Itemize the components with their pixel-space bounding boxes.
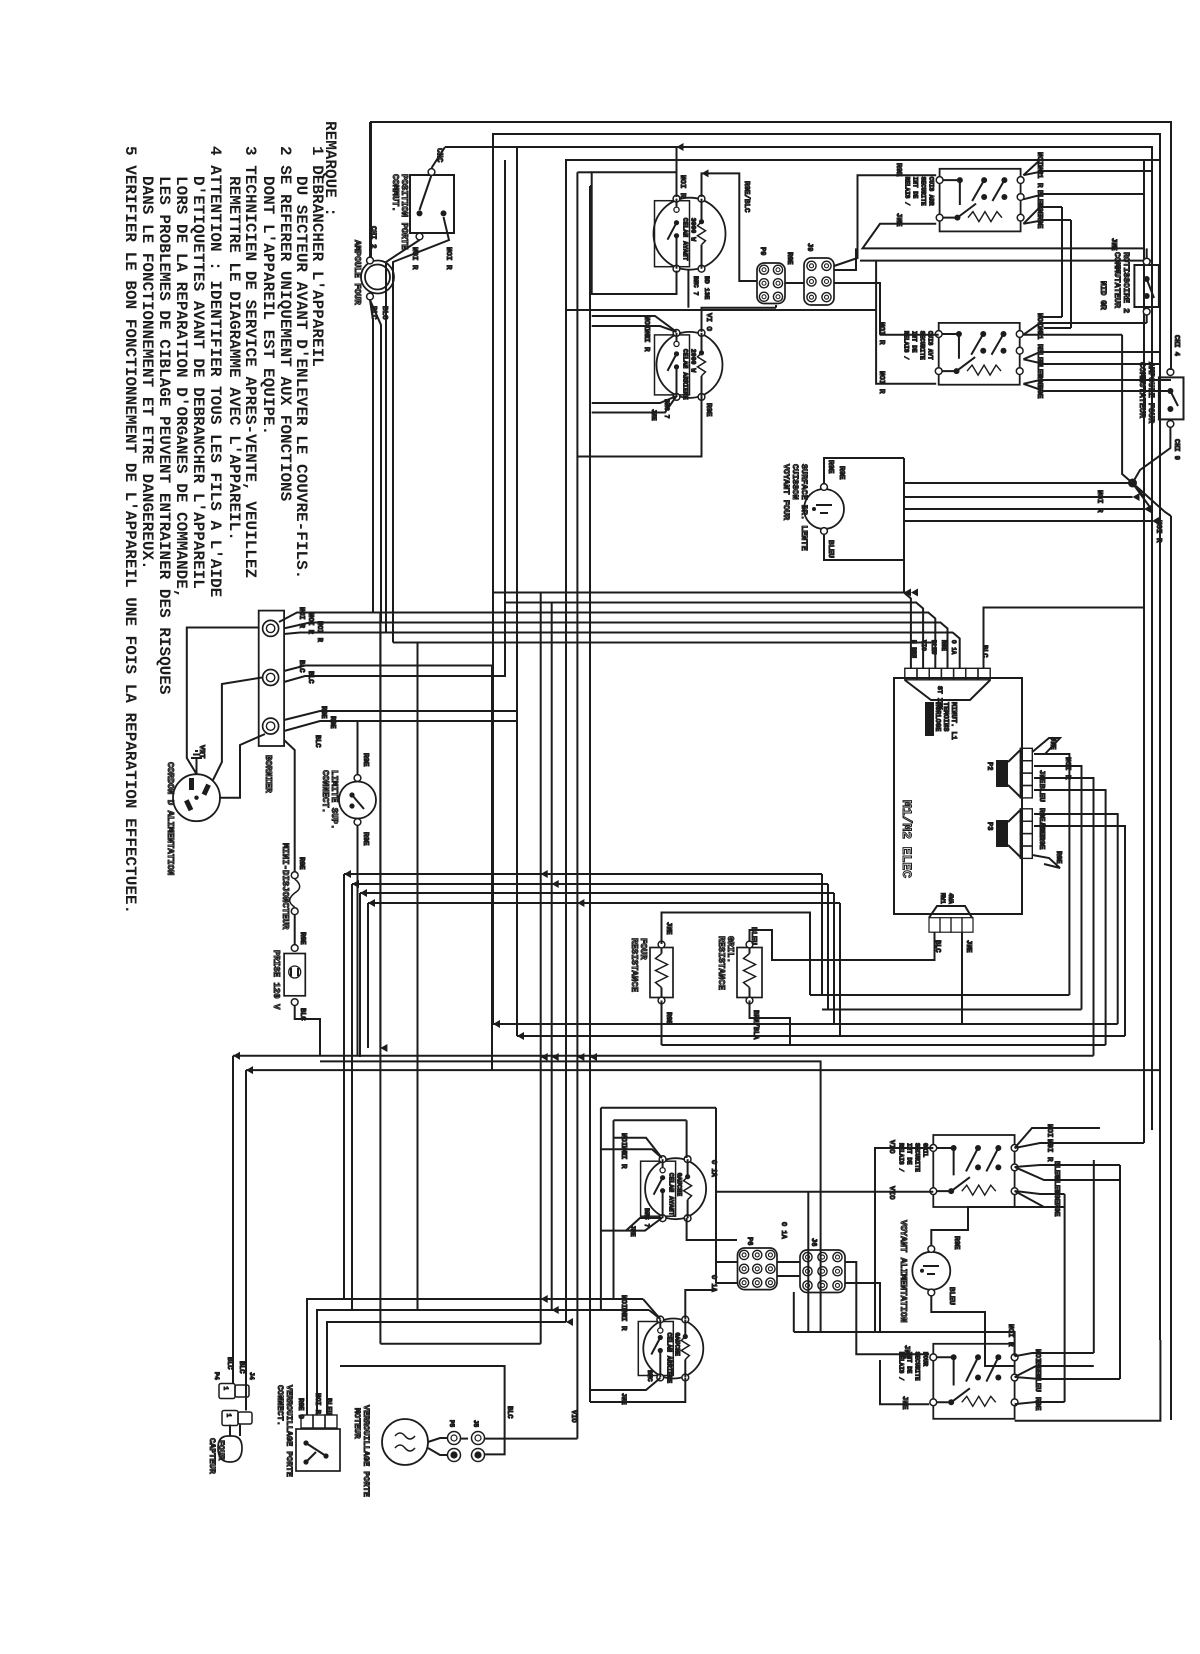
svg-text:MINUT. L1: MINUT. L1 (949, 702, 957, 740)
svg-text:FOUR: FOUR (216, 1440, 226, 1461)
svg-text:BRN/BLA: BRN/BLA (751, 1010, 759, 1040)
svg-text:RESISTANCE: RESISTANCE (629, 938, 639, 993)
svg-text:VOYANT ALIMENTATION: VOYANT ALIMENTATION (898, 1220, 908, 1323)
svg-text:DANS LE FONCTIONNEMENT ET ETRE: DANS LE FONCTIONNEMENT ET ETRE DANGEREUX… (138, 176, 156, 570)
svg-text:RGE: RGE (298, 932, 306, 945)
svg-text:J6: J6 (809, 1238, 817, 1246)
svg-text:JNE: JNE (664, 922, 672, 935)
svg-text:P3: P3 (985, 822, 993, 830)
svg-text:3000 W: 3000 W (690, 218, 697, 242)
svg-text:P5: P5 (448, 1420, 455, 1428)
svg-text:NOI R: NOI R (619, 1308, 627, 1331)
svg-text:BNC: BNC (646, 1370, 653, 1382)
svg-text:RGE: RGE (1052, 1190, 1060, 1204)
svg-text:JNE: JNE (650, 409, 657, 421)
svg-text:RGE: RGE (1054, 851, 1062, 864)
svg-text:MOTEUR: MOTEUR (352, 1408, 362, 1440)
svg-text:BLC: BLC (297, 660, 305, 673)
svg-text:COMMUTATEUR: COMMUTATEUR (1137, 362, 1147, 419)
svg-text:NO1 R: NO1 R (1035, 326, 1043, 349)
svg-text:VIO: VIO (569, 1410, 577, 1423)
svg-text:JNE: JNE (620, 1393, 627, 1405)
svg-text:5 VERIFIER LE BON FONCTIONNEM: 5 VERIFIER LE BON FONCTIONNEMENT DE L'AP… (121, 146, 139, 914)
svg-text:4 ATTENTION : IDENTIFIER TOUS: 4 ATTENTION : IDENTIFIER TOUS LES FILS A… (206, 146, 224, 597)
svg-text:BLC: BLC (313, 735, 321, 748)
svg-text:JNE: JNE (900, 1396, 908, 1410)
svg-text:RGE: RGE (826, 460, 834, 474)
svg-text:BLEU: BLEU (947, 1287, 955, 1306)
svg-text:P2: P2 (985, 762, 993, 770)
svg-text:COMMUTATEUR: COMMUTATEUR (1112, 252, 1122, 309)
svg-text:LORS DE LA REPARATION D'ORGANE: LORS DE LA REPARATION D'ORGANES DE COMMA… (172, 176, 190, 598)
svg-text:CHI 9: CHI 9 (1172, 439, 1180, 460)
svg-text:RGE: RGE (319, 706, 327, 719)
svg-text:RGE: RGE (704, 403, 712, 417)
svg-text:2 SE REFERER UNIQUEMENT AUX F: 2 SE REFERER UNIQUEMENT AUX FONCTIONS (276, 146, 294, 502)
svg-text:RGE: RGE (837, 466, 845, 480)
svg-text:NOI R: NOI R (315, 621, 323, 643)
svg-text:AMPOULE FOUR: AMPOULE FOUR (352, 240, 362, 305)
svg-text:ROTISSOIRE 2: ROTISSOIRE 2 (1121, 252, 1131, 313)
svg-text:M1/M2 ELEC: M1/M2 ELEC (899, 800, 914, 878)
svg-text:RGE: RGE (297, 857, 305, 870)
svg-text:CELAN ARRIERE: CELAN ARRIERE (682, 349, 689, 400)
svg-text:JNE: JNE (902, 1345, 910, 1359)
svg-text:NOI R: NOI R (1006, 1324, 1014, 1347)
svg-text:RGE: RGE (361, 753, 369, 767)
svg-text:GRIL: GRIL (921, 1143, 928, 1158)
svg-text:1: 1 (222, 1387, 229, 1391)
svg-text:POSITION PORTE: POSITION PORTE (399, 174, 409, 250)
svg-text:O 1A: O 1A (950, 640, 957, 655)
svg-text:RGE: RGE (1035, 385, 1043, 399)
svg-text:GRIL.: GRIL. (725, 936, 735, 963)
svg-text:BLEU: BLEU (826, 540, 834, 559)
svg-text:REMETTRE LE DIAGRAMME AVEC L'A: REMETTRE LE DIAGRAMME AVEC L'APPAREIL. (225, 176, 243, 541)
svg-text:INT DE: INT DE (905, 1143, 912, 1165)
svg-text:1: 1 (225, 1414, 232, 1418)
svg-text:VERROUILLAGE PORTE: VERROUILLAGE PORTE (361, 1405, 371, 1497)
svg-text:NOI R: NOI R (306, 613, 314, 635)
svg-text:J9: J9 (805, 243, 813, 251)
svg-text:BNC 7: BNC 7 (663, 399, 670, 419)
svg-text:NOI R: NOI R (877, 322, 885, 345)
svg-text:BD 13E: BD 13E (703, 276, 710, 300)
svg-text:NO1 R: NO1 R (1035, 165, 1043, 188)
svg-text:BLEU: BLEU (1037, 784, 1045, 803)
svg-text:RGE: RGE (1037, 836, 1045, 850)
svg-text:NID GR: NID GR (1098, 281, 1107, 310)
svg-text:CORDON D ALIMENTATION: CORDON D ALIMENTATION (165, 762, 175, 875)
svg-text:FOUR: FOUR (921, 1352, 928, 1367)
svg-text:P9: P9 (758, 247, 766, 255)
svg-text:BLC: BLC (505, 1406, 513, 1419)
svg-text:JNE: JNE (1109, 238, 1117, 251)
svg-text:RGE: RGE (952, 1236, 960, 1250)
svg-text:D'ETIQUETTES AVANT DE DEBRANCH: D'ETIQUETTES AVANT DE DEBRANCHER L'APPAR… (189, 176, 207, 589)
svg-text:CELAN ARRIERE: CELAN ARRIERE (665, 1333, 672, 1384)
svg-text:CONNECT.: CONNECT. (275, 1385, 285, 1426)
svg-text:O 1A: O 1A (779, 1222, 787, 1240)
svg-text:GAUCHE: GAUCHE (676, 1173, 683, 1197)
svg-text:GAUCHE: GAUCHE (673, 1333, 680, 1357)
svg-text:BLEU: BLEU (749, 927, 757, 946)
svg-text:NOI R: NOI R (642, 329, 650, 352)
svg-text:CELAN AVANT: CELAN AVANT (682, 218, 689, 261)
svg-text:LIMITE SUP.: LIMITE SUP. (329, 770, 339, 829)
svg-text:DONT L'APPAREIL EST EQUIPE.: DONT L'APPAREIL EST EQUIPE. (259, 176, 277, 435)
svg-text:CONNECT.: CONNECT. (320, 770, 330, 813)
svg-text:INT DE: INT DE (912, 177, 919, 199)
svg-text:JNE: JNE (894, 213, 902, 227)
svg-text:COMMUT.: COMMUT. (390, 174, 400, 212)
svg-text:4WA: 4WA (947, 893, 954, 904)
svg-text:2000 W: 2000 W (690, 349, 697, 373)
svg-text:RGE: RGE (1052, 1203, 1060, 1217)
svg-text:NOI R: NOI R (297, 607, 305, 629)
svg-text:CELAN AVANT: CELAN AVANT (668, 1173, 675, 1216)
svg-text:SECURITE: SECURITE (920, 177, 927, 206)
svg-text:NOI R: NOI R (410, 247, 418, 270)
svg-text:NOI R: NOI R (678, 175, 686, 198)
svg-text:BLEU: BLEU (1033, 1374, 1041, 1393)
svg-text:LES PROBLEMES DE CIBLAGE PEUVE: LES PROBLEMES DE CIBLAGE PEUVENT ENTRAIN… (155, 176, 173, 695)
svg-text:PRISE 120 V: PRISE 120 V (271, 950, 281, 1010)
svg-text:VOYANT FOUR: VOYANT FOUR (781, 464, 791, 521)
svg-text:VERROUILLAGE PORTE: VERROUILLAGE PORTE (284, 1385, 294, 1477)
svg-text:RELAIS /: RELAIS / (904, 177, 911, 206)
svg-text:RGE: RGE (1033, 1397, 1041, 1411)
svg-text:RGE: RGE (785, 252, 793, 265)
svg-text:BLC: BLC (380, 306, 388, 320)
svg-text:RGE D: RGE D (296, 1398, 304, 1419)
svg-text:CUIS ARR: CUIS ARR (928, 177, 935, 206)
svg-text:P6: P6 (745, 1237, 753, 1245)
svg-text:BLC: BLC (225, 1357, 233, 1370)
svg-text:TEMOINS: TEMOINS (941, 702, 949, 731)
svg-text:MINI-DISJONCTEUR: MINI-DISJONCTEUR (280, 843, 290, 930)
svg-text:VI O: VI O (704, 313, 712, 332)
svg-text:VIO: VIO (887, 1186, 895, 1200)
svg-text:BLC: BLC (237, 1361, 245, 1374)
svg-text:RGE: RGE (361, 832, 369, 846)
svg-text:J4: J4 (248, 1372, 255, 1380)
svg-text:RGE: RGE (664, 1012, 672, 1025)
svg-text:SURFACE BR. LENTE: SURFACE BR. LENTE (799, 464, 809, 551)
svg-text:BLC: BLC (369, 306, 377, 320)
svg-text:RESISTANCE: RESISTANCE (716, 936, 726, 991)
svg-text:BNC 7: BNC 7 (692, 276, 699, 296)
svg-text:MW1: MW1 (939, 893, 946, 904)
svg-text:NOI R: NOI R (444, 247, 452, 270)
svg-text:RGE: RGE (940, 640, 947, 651)
svg-text:P4: P4 (213, 1372, 220, 1380)
svg-text:SECURITE: SECURITE (913, 1352, 920, 1381)
svg-text:HORLOGE: HORLOGE (933, 702, 941, 731)
svg-text:BLC: BLC (306, 671, 314, 684)
svg-text:CAPTEUR: CAPTEUR (207, 1438, 217, 1475)
svg-text:VRT: VRT (197, 745, 205, 759)
svg-text:RGE/BLC: RGE/BLC (742, 181, 750, 213)
svg-text:RGE: RGE (328, 716, 336, 729)
svg-text:J5: J5 (472, 1420, 479, 1428)
svg-text:NOI R: NOI R (877, 371, 885, 394)
svg-text:FOUR: FOUR (638, 938, 648, 960)
svg-text:CHI 4: CHI 4 (1172, 335, 1180, 356)
svg-text:CUISSON: CUISSON (790, 464, 800, 500)
svg-text:AMPOULE FOUR: AMPOULE FOUR (1146, 362, 1156, 424)
svg-text:JNE: JNE (1048, 737, 1056, 750)
svg-text:BORNIER: BORNIER (263, 755, 273, 793)
svg-text:JNE: JNE (964, 940, 972, 953)
